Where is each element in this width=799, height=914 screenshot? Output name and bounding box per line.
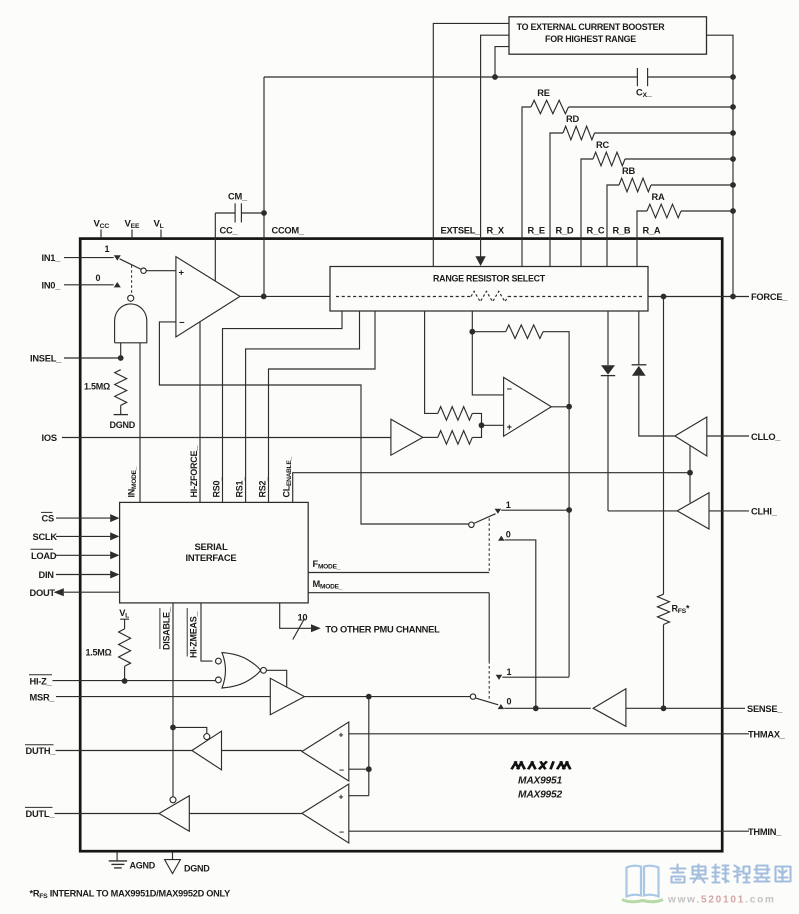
svg-text:TO EXTERNAL CURRENT BOOSTER: TO EXTERNAL CURRENT BOOSTER (517, 22, 666, 32)
svg-text:EXTSEL_: EXTSEL_ (441, 226, 482, 236)
svg-text:RANGE RESISTOR SELECT: RANGE RESISTOR SELECT (433, 274, 546, 284)
svg-text:+: + (339, 791, 344, 801)
svg-text:DGND: DGND (110, 420, 136, 430)
svg-text:SERIAL: SERIAL (195, 541, 228, 552)
svg-text:HI-ZFORCE_: HI-ZFORCE_ (189, 445, 199, 498)
svg-text:DGND: DGND (184, 864, 210, 874)
svg-text:CS: CS (42, 514, 54, 524)
svg-text:MAX9951: MAX9951 (518, 776, 562, 787)
svg-text:THMIN_: THMIN_ (748, 827, 782, 837)
svg-text:R_C: R_C (587, 226, 605, 236)
svg-text:1: 1 (506, 500, 511, 510)
svg-text:SENSE_: SENSE_ (747, 704, 783, 714)
svg-text:INSEL_: INSEL_ (30, 354, 62, 364)
svg-text:CLHI_: CLHI_ (751, 507, 778, 517)
svg-text:DISABLE_: DISABLE_ (161, 606, 171, 650)
svg-text:0: 0 (96, 273, 101, 283)
svg-text:DOUT: DOUT (30, 588, 56, 598)
svg-text:THMAX_: THMAX_ (748, 730, 786, 740)
svg-text:AGND: AGND (130, 860, 156, 870)
svg-text:0: 0 (506, 529, 511, 539)
svg-text:−: − (339, 765, 344, 775)
svg-text:R_D: R_D (556, 226, 574, 236)
svg-text:DUTH_: DUTH_ (26, 746, 57, 756)
svg-text:+: + (507, 422, 512, 432)
svg-text:DIN: DIN (39, 570, 55, 580)
svg-text:−: − (339, 827, 344, 837)
svg-text:CM_: CM_ (228, 192, 248, 202)
svg-text:1: 1 (105, 244, 110, 254)
svg-text:RC: RC (596, 140, 609, 150)
svg-text:1.5MΩ: 1.5MΩ (86, 648, 112, 658)
svg-text:RB: RB (622, 166, 635, 176)
svg-text:+: + (179, 267, 185, 278)
svg-text:−: − (179, 318, 185, 329)
svg-text:10: 10 (298, 613, 308, 623)
svg-text:DUTL_: DUTL_ (26, 809, 56, 819)
svg-text:RD: RD (566, 114, 579, 124)
svg-text:R_E: R_E (528, 226, 545, 236)
svg-text:SCLK: SCLK (33, 532, 58, 542)
svg-text:+: + (339, 729, 344, 739)
svg-text:CC_: CC_ (220, 226, 239, 236)
svg-text:*RFS INTERNAL TO MAX9951D/MAX9: *RFS INTERNAL TO MAX9951D/MAX9952D ONLY (30, 889, 231, 901)
svg-text:FOR HIGHEST RANGE: FOR HIGHEST RANGE (545, 34, 636, 44)
svg-text:0: 0 (507, 697, 512, 707)
svg-text:IOS: IOS (42, 433, 57, 443)
svg-text:CCOM_: CCOM_ (272, 226, 305, 236)
svg-text:MSR_: MSR_ (30, 692, 56, 702)
svg-text:www.520101.com: www.520101.com (667, 895, 776, 906)
svg-text:R_X: R_X (487, 226, 505, 236)
svg-text:RE: RE (537, 88, 549, 98)
svg-text:CLLO_: CLLO_ (751, 432, 781, 442)
svg-text:LOAD: LOAD (31, 551, 57, 561)
svg-text:IN0_: IN0_ (42, 280, 62, 290)
svg-text:FORCE_: FORCE_ (751, 292, 788, 302)
svg-text:IN1_: IN1_ (42, 253, 62, 263)
svg-text:RA: RA (652, 192, 665, 202)
svg-text:1: 1 (507, 667, 512, 677)
svg-text:INTERFACE: INTERFACE (186, 552, 237, 563)
svg-text:−: − (507, 384, 512, 394)
svg-text:1.5MΩ: 1.5MΩ (84, 382, 110, 392)
svg-text:MAX9952: MAX9952 (518, 790, 562, 801)
svg-text:R_A: R_A (643, 226, 661, 236)
svg-text:HI-Z_: HI-Z_ (30, 676, 53, 686)
svg-text:TO OTHER PMU CHANNEL: TO OTHER PMU CHANNEL (325, 625, 440, 635)
svg-text:R_B: R_B (613, 226, 631, 236)
svg-text:HI-ZMEAS_: HI-ZMEAS_ (189, 611, 199, 658)
